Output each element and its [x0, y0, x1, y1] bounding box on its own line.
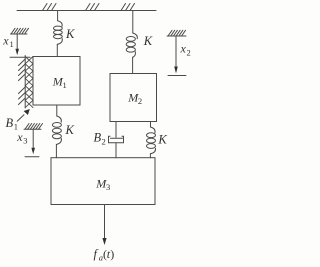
- svg-text:1: 1: [14, 122, 18, 132]
- svg-text:1: 1: [63, 80, 67, 90]
- svg-text:K: K: [65, 27, 75, 41]
- svg-text:x: x: [16, 130, 23, 144]
- svg-text:B: B: [6, 116, 14, 130]
- svg-text:1: 1: [10, 39, 14, 49]
- svg-text:2: 2: [102, 137, 106, 147]
- svg-text:x: x: [2, 34, 9, 48]
- svg-text:2: 2: [138, 96, 142, 106]
- svg-text:): ): [110, 247, 114, 261]
- svg-text:3: 3: [106, 182, 110, 192]
- svg-text:K: K: [157, 133, 167, 147]
- svg-text:B: B: [94, 131, 102, 145]
- svg-text:f: f: [94, 247, 99, 261]
- svg-text:3: 3: [23, 136, 27, 146]
- svg-text:K: K: [143, 34, 153, 48]
- svg-text:K: K: [65, 123, 75, 137]
- svg-text:2: 2: [187, 48, 191, 58]
- svg-text:x: x: [180, 42, 187, 56]
